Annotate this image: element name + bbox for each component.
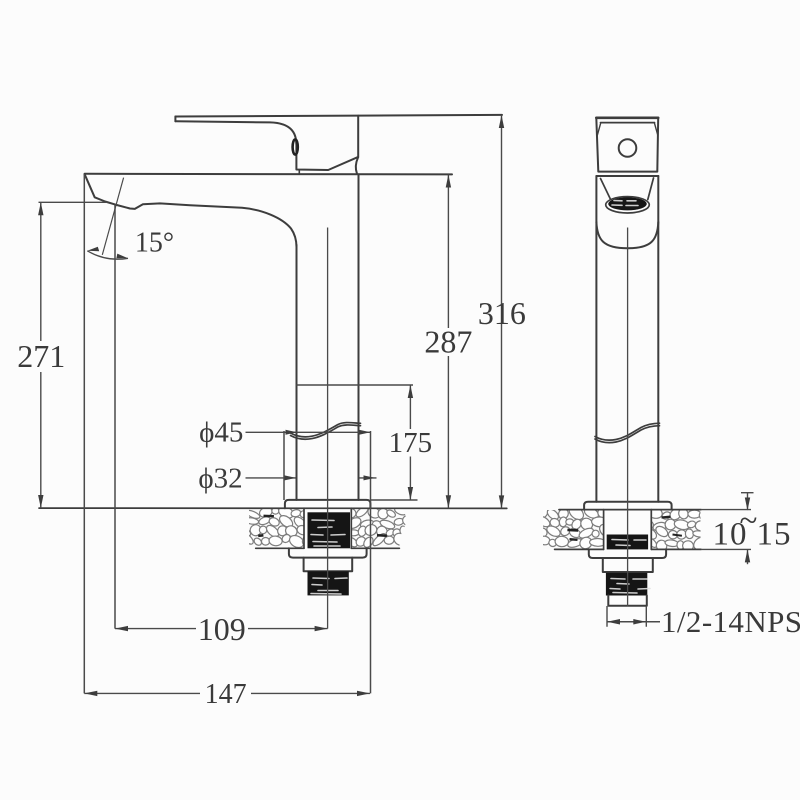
svg-text:ϕ32: ϕ32 bbox=[198, 463, 242, 495]
svg-text:15: 15 bbox=[757, 517, 792, 553]
svg-text:1/2-14NPS: 1/2-14NPS bbox=[661, 604, 800, 639]
svg-text:271: 271 bbox=[17, 338, 65, 374]
svg-text:147: 147 bbox=[205, 679, 247, 710]
svg-text:109: 109 bbox=[198, 611, 246, 647]
svg-text:15°: 15° bbox=[135, 228, 174, 259]
svg-text:~: ~ bbox=[740, 503, 758, 539]
svg-text:ϕ45: ϕ45 bbox=[199, 417, 243, 449]
svg-text:287: 287 bbox=[424, 324, 472, 360]
svg-text:316: 316 bbox=[478, 295, 526, 331]
svg-text:175: 175 bbox=[389, 427, 433, 459]
